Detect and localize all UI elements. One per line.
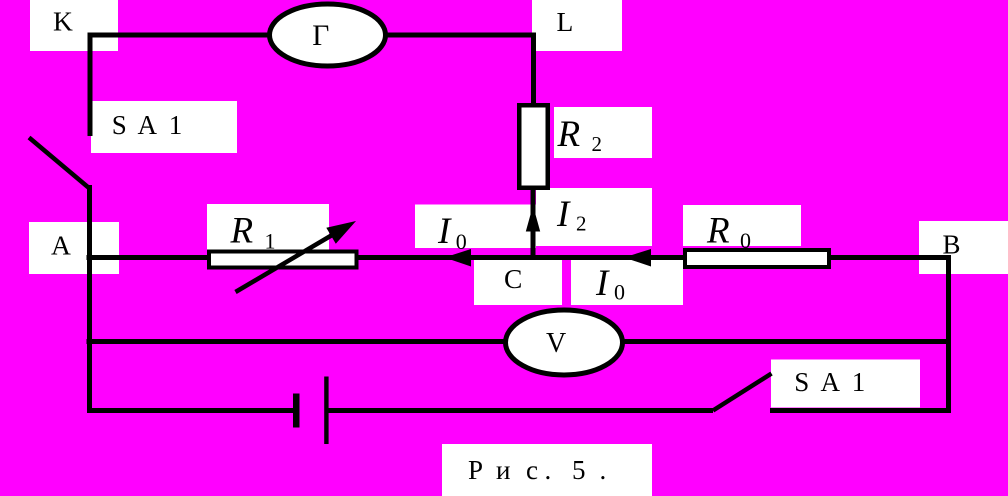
- svg-text:1: 1: [265, 228, 276, 253]
- svg-text:R: R: [557, 114, 581, 155]
- svg-text:Г: Г: [312, 20, 329, 52]
- svg-text:0: 0: [614, 280, 625, 305]
- svg-text:C: C: [504, 263, 522, 294]
- svg-text:I: I: [595, 263, 610, 304]
- svg-text:2: 2: [592, 132, 603, 156]
- svg-text:I: I: [437, 211, 452, 252]
- svg-text:SA1: SA1: [794, 367, 865, 397]
- svg-text:2: 2: [576, 212, 587, 236]
- svg-text:0: 0: [456, 229, 467, 254]
- svg-text:K: K: [53, 6, 73, 37]
- svg-text:L: L: [557, 6, 574, 37]
- svg-text:I: I: [556, 194, 571, 235]
- svg-text:SA1: SA1: [112, 110, 183, 140]
- svg-text:V: V: [546, 328, 566, 359]
- svg-text:R: R: [230, 211, 254, 252]
- svg-text:0: 0: [740, 228, 751, 253]
- svg-text:B: B: [943, 230, 961, 260]
- svg-text:R: R: [706, 211, 730, 252]
- svg-text:A: A: [51, 230, 71, 261]
